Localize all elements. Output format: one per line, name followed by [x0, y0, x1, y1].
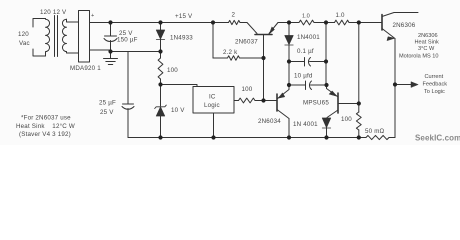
transformer T1 primary terminal stub top [33, 19, 46, 28]
wire logic box ground lead [213, 113, 215, 138]
transistor Q3 MPSU65 base bar [337, 93, 339, 113]
transistor Q3 base lead wire to 100 ohm [338, 103, 359, 105]
svg-text:MDA920 1: MDA920 1 [70, 65, 101, 72]
resistor R1 100 zigzag [158, 58, 163, 79]
transistor Q4 2N6306 base bar [381, 15, 383, 31]
node base wire junction [261, 98, 265, 102]
svg-text:1.0: 1.0 [302, 14, 310, 20]
wire rectifier + output to top rail [90, 22, 111, 24]
node bottom rail R7 [357, 135, 361, 139]
transformer T1 core [55, 16, 58, 57]
svg-text:+: + [91, 13, 94, 19]
diode D3 1N4001 lead from rail [288, 23, 290, 36]
node rail junction at C1 [108, 20, 112, 24]
svg-text:Current: Current [425, 74, 444, 80]
node bottom rail D4 [324, 135, 328, 139]
transistor Q2 collector to bottom rail [288, 119, 290, 138]
transistor Q3 emitter arrow [329, 91, 337, 96]
transistor Q3 MPSU65 emitter lead diagonal [327, 85, 338, 97]
node 2N6306 emitter feedback junction [393, 82, 397, 86]
diode D1 lead bottom [160, 40, 162, 52]
svg-text:SeekIC.com: SeekIC.com [415, 134, 460, 143]
svg-text:Logic: Logic [204, 102, 220, 109]
resistor R4 1.0 zigzag [299, 20, 314, 25]
svg-text:50 mΩ: 50 mΩ [365, 128, 385, 135]
svg-text:1.0: 1.0 [336, 12, 346, 19]
node raw dc minus junction [108, 49, 112, 53]
transistor Q4 emitter diagonal [382, 29, 395, 39]
diode D1 1N4933 lead from rail [160, 23, 162, 31]
capacitor C4 10uFd plates [306, 81, 312, 90]
svg-text:120: 120 [18, 31, 29, 38]
node rail junction at cap column [324, 20, 328, 24]
wire top rail right section [278, 22, 382, 24]
wire 2.2k drop from rail [212, 23, 214, 59]
wire node A vertical [288, 62, 290, 86]
node bottom rail zener [158, 135, 162, 139]
svg-text:Feedback: Feedback [423, 82, 448, 88]
svg-text:2N6306: 2N6306 [418, 33, 438, 39]
svg-text:2N6037: 2N6037 [235, 39, 258, 46]
node reference column top junction [158, 49, 162, 53]
node 0.1uF right [324, 59, 328, 63]
capacitor C4 10uFd left lead [289, 84, 305, 86]
svg-text:10 µfd: 10 µfd [294, 73, 313, 80]
zener D2 cathode bar with wings [155, 105, 167, 108]
svg-text:25 V: 25 V [100, 109, 114, 116]
op-amp U2 IC logic box [193, 87, 234, 114]
svg-text:*For 2N6037 use: *For 2N6037 use [21, 115, 71, 122]
wire column from rail to caps [325, 23, 327, 86]
svg-text:1N4933: 1N4933 [170, 35, 193, 42]
node 10uFd right MPSU emitter [324, 83, 328, 87]
current feedback arrowhead [411, 82, 418, 88]
svg-text:MPSU65: MPSU65 [303, 100, 329, 107]
resistor R1 bottom lead [160, 79, 162, 85]
transistor Q2 2N6034 base bar [276, 94, 278, 111]
resistor R2 2.2k zigzag [213, 56, 264, 60]
ground [104, 52, 118, 65]
node bottom rail Q2 collector [287, 135, 291, 139]
svg-text:150 µF: 150 µF [117, 37, 138, 44]
svg-text:+15 V: +15 V [175, 13, 193, 20]
capacitor C1 150uF plates [104, 36, 117, 42]
transistor Q1 2N6037 collector lead diagonal [247, 23, 257, 34]
transistor Q4 emitter column [394, 39, 396, 138]
node rail junction at D3 [287, 20, 291, 24]
capacitor C4 right lead [311, 84, 327, 86]
resistor R7 100 upper lead [358, 104, 360, 113]
svg-text:2.2 k: 2.2 k [223, 49, 238, 56]
bridge rectifier U1 MDA920-1 box [79, 11, 90, 63]
svg-text:Heat Sink: Heat Sink [415, 40, 439, 46]
transformer T1 primary terminal stub bottom [33, 49, 46, 56]
capacitor C2 25uF plates [122, 104, 134, 109]
node bottom rail logic ground [211, 135, 215, 139]
svg-text:2N6034: 2N6034 [258, 118, 281, 125]
wire raw dc return to reference column [111, 51, 161, 53]
diode D4 lead to bottom rail [326, 128, 328, 138]
capacitor C2 25uF branch upper lead [127, 52, 129, 105]
transistor Q3 collector lead diagonal [327, 110, 338, 118]
node 2.2k base junction [261, 56, 265, 60]
svg-text:100: 100 [242, 86, 253, 93]
svg-text:Heat Sink 12°C W: Heat Sink 12°C W [16, 123, 75, 130]
zener D2 10V upper lead [160, 85, 162, 107]
zener D2 10V body [156, 107, 164, 116]
transistor Q4 emitter arrow [387, 37, 395, 41]
resistor R1 100 top lead [160, 52, 162, 59]
node rail junction at 2.2k drop [211, 20, 215, 24]
wire secondary top to rectifier [67, 19, 79, 22]
capacitor C3 0.1uF left lead [289, 61, 304, 63]
capacitor C3 right lead [310, 61, 327, 63]
svg-text:2N6306: 2N6306 [393, 22, 416, 29]
transistor Q1 base lead down [263, 35, 265, 101]
transistor Q2 emitter arrow [278, 93, 285, 98]
node MPSU base 100 ohm junction [357, 101, 361, 105]
node A 10uFd left [287, 83, 291, 87]
resistor R7 100 zigzag [356, 112, 361, 130]
resistor R5 1.0 zigzag [335, 20, 350, 25]
node rail junction at D1 [158, 20, 162, 24]
resistor R8 50 milliohm zigzag [366, 135, 389, 139]
diode D3 lead bottom [288, 45, 290, 62]
capacitor C2 lead to bottom rail [127, 109, 129, 138]
node zener reference junction [158, 82, 162, 86]
node A 0.1uF left [287, 59, 291, 63]
resistor R7 lower lead [358, 130, 360, 138]
node rail junction at R7 column [357, 20, 361, 24]
capacitor C1 lead bottom [110, 41, 112, 52]
wire current feedback arrow line [395, 84, 412, 86]
svg-text:Motorola MS 10: Motorola MS 10 [399, 54, 438, 60]
wire reference node to logic box [161, 85, 198, 87]
svg-text:25 µF: 25 µF [99, 100, 116, 107]
svg-text:Vac: Vac [19, 40, 30, 47]
transistor Q2 collector lead diagonal [277, 110, 289, 119]
resistor R6 100 zigzag [239, 98, 256, 103]
svg-text:100: 100 [167, 67, 178, 74]
zener D2 lead to bottom rail [160, 116, 162, 138]
svg-text:IC: IC [209, 94, 216, 101]
svg-text:10 V: 10 V [171, 107, 185, 114]
svg-text:3°C W: 3°C W [418, 46, 435, 52]
transistor Q4 collector diagonal and output wire [382, 13, 418, 17]
capacitor C1 150uF lead top [110, 23, 112, 37]
transistor Q1 2N6037 base bar [255, 34, 272, 36]
wire top rail [111, 22, 248, 24]
diode D4 1N4001 body [322, 118, 330, 128]
svg-text:(Staver V4 3 192): (Staver V4 3 192) [19, 131, 71, 138]
wire secondary bottom to rectifier [67, 52, 79, 53]
transistor Q2 2N6034 base lead wire [234, 100, 277, 102]
wire column rail to 100 ohm [358, 23, 360, 104]
transformer T1 secondary winding [62, 19, 66, 51]
svg-text:1N 4001: 1N 4001 [293, 121, 318, 128]
transformer T1 primary winding [46, 19, 50, 57]
svg-text:0.1 µf: 0.1 µf [297, 48, 314, 55]
svg-text:1N4001: 1N4001 [297, 34, 320, 41]
transistor Q2 emitter lead diagonal [278, 85, 290, 99]
svg-text:2: 2 [232, 12, 236, 19]
resistor R3 2 ohm zigzag in rail [229, 20, 241, 24]
svg-text:100: 100 [341, 116, 352, 123]
capacitor C3 0.1uF plates [305, 58, 311, 67]
wire rectifier - output [90, 50, 111, 52]
svg-text:120 12 V: 120 12 V [40, 9, 67, 16]
transistor Q1 2N6037 emitter lead diagonal [269, 23, 278, 34]
wire bottom rail [128, 137, 395, 139]
diode D3 1N4001 body [285, 36, 293, 46]
svg-text:To Logic: To Logic [424, 89, 445, 95]
transistor Q1 emitter arrow [270, 27, 275, 34]
diode D1 1N4933 body [156, 30, 164, 40]
